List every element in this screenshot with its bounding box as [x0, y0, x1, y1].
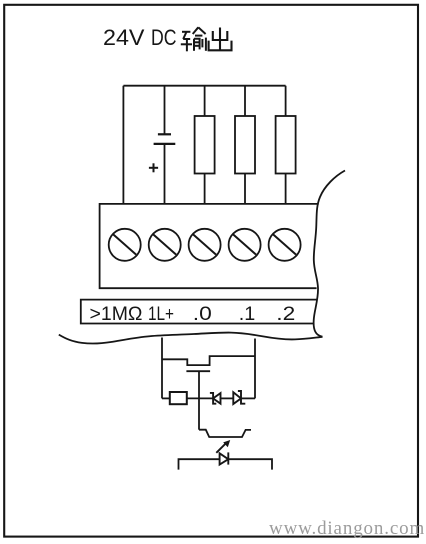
svg-text:.2: .2 — [276, 303, 295, 325]
plus polarity mark — [149, 163, 158, 172]
wire left vertical 1M terminal — [122, 86, 124, 204]
svg-text:DC: DC — [151, 25, 177, 50]
terminal screw 5 — [269, 229, 301, 261]
wire 1L+ drop — [161, 338, 163, 399]
terminal screw 3 — [189, 229, 221, 261]
wire load drop — [254, 339, 256, 399]
resistor R1 — [195, 86, 215, 204]
resistor R2 — [235, 86, 255, 204]
resistor R3 — [276, 86, 296, 204]
zener diode D2 — [233, 391, 245, 404]
svg-text:www.diangon.com: www.diangon.com — [269, 518, 425, 539]
wire top bus — [123, 85, 285, 87]
label box — [81, 300, 317, 324]
zener diode D1 — [210, 393, 221, 404]
break line horizontal — [59, 333, 323, 344]
svg-text:.1: .1 — [239, 303, 256, 325]
svg-text:24V: 24V — [103, 25, 145, 50]
hanzi 出 — [209, 28, 232, 51]
capacitor C1 — [154, 86, 176, 204]
svg-text:>1MΩ: >1MΩ — [90, 303, 143, 325]
label text >1MΩ 1L+ .0 .1 .2 — [90, 303, 296, 325]
wire ground rail — [179, 459, 273, 469]
transistor Q2 lower device — [199, 430, 251, 437]
transistor Q1 output MOSFET — [162, 356, 255, 371]
svg-text:.0: .0 — [193, 303, 212, 325]
resistor R4 — [162, 392, 213, 404]
wire to load drop — [241, 397, 255, 399]
terminal block — [100, 204, 319, 288]
terminal screw 1 — [109, 229, 141, 261]
title 24V DC 输出 — [103, 25, 177, 50]
svg-text:1L+: 1L+ — [148, 303, 174, 325]
diode D3 — [220, 452, 229, 464]
hanzi 输 — [181, 27, 206, 51]
wire gate lead — [198, 371, 200, 430]
arrow trigger — [216, 440, 230, 453]
terminal screw 4 — [229, 229, 261, 261]
terminal screw 2 — [149, 229, 181, 261]
wire between diodes — [221, 397, 234, 399]
break line right side — [314, 171, 345, 337]
